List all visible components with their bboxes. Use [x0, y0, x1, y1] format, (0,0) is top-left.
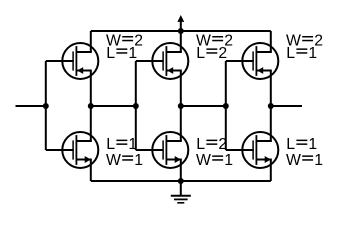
wire: gate net vertical, inverter 2 — [135, 61, 137, 150]
label: M6 L=1 — [286, 136, 317, 153]
wire: GND bottom rail — [91, 180, 271, 182]
label: M1 W=2 — [106, 32, 143, 49]
label: M4 W=1 — [196, 152, 233, 169]
wire: M6 source to GND rail — [270, 160, 272, 182]
svg-text:W: W — [106, 152, 121, 169]
wire: input lead (node A) — [16, 105, 46, 107]
transistor M3 PMOS (inverter 2) — [136, 43, 189, 79]
label: M3 L=2 — [196, 45, 227, 62]
transistor M2 NMOS (inverter 1) — [46, 132, 99, 168]
transistor M4 NMOS (inverter 2) — [136, 132, 189, 168]
svg-text:L: L — [286, 45, 295, 62]
junction: gate net 1 — [43, 103, 49, 109]
svg-text:L: L — [286, 136, 295, 153]
svg-text:1: 1 — [308, 136, 317, 153]
wire: M4 source to GND rail — [180, 160, 182, 182]
transistor M6 NMOS (inverter 3) — [226, 132, 278, 168]
svg-text:1: 1 — [308, 45, 317, 62]
power supply arrow (VDD) — [177, 15, 184, 31]
svg-text:1: 1 — [314, 152, 323, 169]
wire: M5 source to VDD rail — [270, 31, 272, 52]
wire: VDD top rail — [91, 30, 271, 32]
junction: gate net 2 — [133, 103, 139, 109]
svg-text:1: 1 — [134, 152, 143, 169]
wire: drain net vertical, inverter 2 — [180, 71, 182, 142]
svg-text:W: W — [196, 152, 211, 169]
wire: output lead (node Y) — [271, 105, 302, 107]
wire: gate net vertical, inverter 3 — [225, 61, 227, 150]
label: M2 L=1 — [106, 136, 137, 153]
label: M1 L=1 — [106, 45, 137, 62]
label: M3 W=2 — [196, 32, 233, 49]
svg-text:1: 1 — [224, 152, 233, 169]
svg-text:2: 2 — [218, 45, 227, 62]
label: M4 L=2 — [196, 136, 227, 153]
wire: M3 source to VDD rail — [180, 31, 182, 52]
label: M2 W=1 — [106, 152, 143, 169]
transistor M5 PMOS (inverter 3) — [226, 43, 278, 79]
wire: node B (inv1 out to inv2 in) — [91, 105, 136, 107]
ground — [171, 181, 191, 203]
svg-text:1: 1 — [128, 45, 137, 62]
svg-text:L: L — [196, 136, 205, 153]
label: M6 W=1 — [286, 152, 323, 169]
junction: drain net 2 — [178, 103, 184, 109]
wire: gate net vertical, inverter 1 — [45, 61, 47, 150]
wire: drain net vertical, inverter 3 — [270, 71, 272, 142]
label: M5 W=2 — [286, 32, 323, 49]
wire: drain net vertical, inverter 1 — [90, 71, 92, 142]
svg-text:L: L — [106, 45, 115, 62]
junction: GND rail / M4 source — [178, 178, 184, 184]
junction: drain net 1 — [88, 103, 94, 109]
junction: drain net 3 — [268, 103, 274, 109]
wire: node C (inv2 out to inv3 in) — [181, 105, 226, 107]
svg-text:L: L — [196, 45, 205, 62]
svg-text:L: L — [106, 136, 115, 153]
transistor M1 PMOS (inverter 1) — [46, 43, 99, 79]
label: M5 L=1 — [286, 45, 317, 62]
wire: M2 source to GND rail — [90, 160, 92, 182]
junction: gate net 3 — [223, 103, 229, 109]
wire: M1 source to VDD rail — [90, 31, 92, 52]
svg-text:W: W — [286, 152, 301, 169]
junction: VDD rail / M3 source — [178, 28, 184, 34]
